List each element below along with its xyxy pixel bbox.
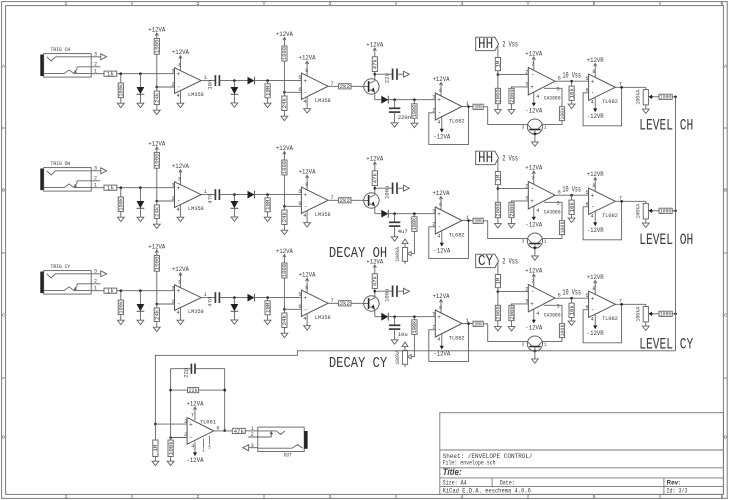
svg-text:2 Vss: 2 Vss (502, 41, 518, 50)
diode clamp D (CY) (137, 304, 145, 311)
svg-text:2: 2 (172, 299, 175, 305)
svg-text:CA3080: CA3080 (544, 312, 561, 319)
resistor 100k decay (OH) (411, 217, 418, 232)
svg-text:LM358: LM358 (315, 314, 331, 321)
op-amp U LM358 comparator A (CH) (172, 63, 207, 100)
ground Q2 emitter (CH) (532, 142, 539, 146)
resistor 1000 out (CY) (659, 311, 672, 318)
svg-text:3: 3 (432, 209, 435, 215)
svg-text:-: - (304, 306, 308, 313)
svg-text:22u: 22u (384, 73, 391, 83)
svg-text:47k: 47k (372, 275, 379, 286)
svg-text:+12VA: +12VA (299, 169, 317, 177)
wire TL081 out (214, 430, 233, 432)
wire CA3080 pin5 (OH) (544, 202, 562, 220)
svg-text:6: 6 (558, 292, 561, 298)
wire mixer 1M gnd (154, 457, 156, 462)
svg-text:4u7: 4u7 (398, 228, 408, 235)
svg-text:47k: 47k (234, 428, 245, 435)
wire divider2 to 24k (CY) (283, 309, 285, 313)
svg-text:2: 2 (172, 82, 175, 88)
svg-text:TRIG OH: TRIG OH (51, 160, 71, 167)
svg-text:100u: 100u (384, 288, 391, 301)
hierarchical label HH (OH) (476, 151, 499, 167)
op-amp U TL082 buffer (OH) (432, 202, 469, 240)
wire 24k-2 to gnd (CY) (283, 328, 285, 334)
resistor 24k divider 2 (OH) (281, 210, 288, 225)
wire cap 22p left (171, 368, 192, 370)
power -12VR TL082 output (CH) (587, 98, 604, 121)
wire diode to gnd (OH) (139, 208, 141, 217)
wire emitter to diode (CY) (375, 316, 382, 318)
capacitor 22u (CH) (384, 69, 397, 84)
capacitor 10u envelope (CY) (389, 325, 408, 338)
ground 10k load (OH) (568, 218, 575, 222)
wire CA3080 pin5 (CH) (544, 88, 562, 106)
power +12VA LM358B (OH) (299, 169, 317, 190)
frame tick right C (723, 377, 727, 379)
svg-text:+: + (437, 97, 441, 104)
op-amp U LM358 comparator A (CY) (172, 280, 207, 317)
svg-text:-12VA: -12VA (187, 457, 205, 465)
svg-text:1000: 1000 (411, 104, 418, 117)
junction bus tap (CH) (674, 96, 677, 99)
ground under 24k (OH) (153, 224, 160, 228)
svg-text:+12VA: +12VA (433, 76, 451, 84)
power +12VA pull-up 2 (CY) (276, 248, 294, 263)
svg-text:24k: 24k (154, 309, 161, 320)
svg-text:24k: 24k (154, 206, 161, 217)
svg-text:4: 4 (303, 213, 306, 219)
svg-text:1000: 1000 (154, 153, 161, 167)
wire divider to 24k (CY) (156, 304, 158, 308)
op-amp U CA3080 OTA (OH) (525, 176, 561, 216)
svg-text:+12VA: +12VA (433, 190, 451, 198)
wire pull-up2 down (CH) (283, 61, 285, 92)
frame tick bottom 4 (527, 494, 529, 498)
diode emitter series (OH) (381, 210, 388, 218)
svg-text:2: 2 (197, 494, 200, 500)
wire TL082 out feedback (CY) (583, 304, 622, 343)
ground LM358B pin4 (CH) (304, 109, 311, 113)
frame tick left A (2, 127, 6, 129)
power -12VA TL082 buffer (CH) (433, 117, 451, 141)
wire decay pot bottom stub (CY) (404, 364, 406, 367)
junction CA3080 out (OH) (570, 194, 573, 197)
wire to clamp diode 2 (OH) (233, 195, 235, 201)
wire emitter to diode (OH) (375, 213, 382, 215)
svg-text:100kA: 100kA (636, 306, 642, 322)
svg-text:4: 4 (591, 213, 594, 219)
svg-text:+: + (591, 78, 595, 85)
junction divider 2 (CY) (283, 308, 286, 311)
resistor 1M mixer input (152, 440, 159, 457)
junction TL082 output (CH) (620, 86, 623, 89)
svg-text:+12VA: +12VA (525, 267, 543, 275)
svg-text:5: 5 (586, 190, 589, 196)
svg-text:3: 3 (525, 82, 528, 88)
resistor 10k load (CH) (568, 86, 575, 100)
resistor 1k input (OH) (104, 185, 117, 192)
svg-text:4: 4 (461, 494, 464, 500)
wire divider1 to inverting input (CH) (157, 86, 175, 88)
capacitor 100u (CY) (384, 286, 397, 302)
svg-text:1M: 1M (495, 61, 502, 68)
wire to clamp diode 2 (CH) (233, 81, 235, 87)
svg-text:1: 1 (94, 286, 97, 292)
potentiometer 100kA LEVEL (CY) (636, 306, 652, 322)
svg-text:6: 6 (298, 87, 301, 93)
svg-text:LEVEL CH: LEVEL CH (639, 117, 693, 135)
svg-text:2: 2 (94, 176, 97, 182)
wire 10M to gnd (OH) (267, 212, 269, 217)
svg-text:A: A (2, 64, 5, 70)
resistor 10M (CY) (264, 301, 271, 315)
svg-text:2000: 2000 (495, 203, 502, 217)
svg-text:5: 5 (557, 87, 560, 93)
ground under 24k (CY) (153, 327, 160, 331)
wire 2000b to CA3080 pin3 (CH) (512, 87, 529, 88)
svg-text:+: + (177, 185, 181, 192)
resistor 2000 a (CY) (495, 305, 502, 320)
svg-text:3: 3 (172, 69, 175, 75)
svg-text:2000: 2000 (495, 89, 502, 103)
svg-text:6: 6 (298, 304, 301, 310)
svg-text:100kA: 100kA (636, 203, 642, 219)
wire TL082 out feedback (OH) (583, 201, 622, 240)
wire CA3080 pin5 (CY) (544, 305, 562, 323)
svg-text:100k: 100k (167, 441, 174, 456)
resistor 47k output (232, 428, 245, 435)
svg-text:100k: 100k (474, 219, 482, 225)
svg-text:+: + (177, 288, 181, 295)
svg-text:HH: HH (478, 151, 493, 167)
svg-text:5: 5 (208, 446, 211, 451)
junction 10M node (OH) (266, 193, 269, 196)
svg-text:+: + (530, 84, 534, 91)
junction 10M node (CY) (266, 296, 269, 299)
junction 10M node (CH) (266, 79, 269, 82)
junction input node (CH) (120, 72, 123, 75)
wire jack pin3 (CY) (91, 273, 103, 275)
svg-text:10k: 10k (568, 201, 575, 212)
wire LM358A gnd pin (OH) (179, 205, 181, 218)
wire decay pot top nc (OH) (404, 244, 406, 248)
wire pull-up2 down (CY) (283, 278, 285, 309)
svg-text:2000: 2000 (495, 306, 502, 320)
wire jack pin2 stub (OH) (77, 180, 101, 182)
ground under 10M (OH) (264, 217, 271, 221)
svg-text:2: 2 (172, 196, 175, 202)
resistor 1000 pull-up 2 (CH) (281, 46, 288, 61)
svg-text:LM358: LM358 (188, 205, 204, 212)
junction level wiper (CH) (650, 96, 653, 99)
potentiometer 100kA DECAY (OH) (395, 246, 411, 262)
svg-text:-12VA: -12VA (433, 248, 451, 256)
svg-text:1: 1 (544, 239, 547, 244)
wire input node (CH) (117, 73, 175, 75)
wire series diode to pin5 (CY) (255, 297, 302, 299)
wire 24k to gnd (CY) (156, 322, 158, 327)
frame tick top 3 (395, 2, 397, 6)
svg-text:LM358: LM358 (188, 91, 204, 98)
svg-text:+12VR: +12VR (587, 171, 604, 179)
frame tick left C (2, 377, 6, 379)
svg-text:100k: 100k (474, 105, 482, 111)
svg-text:TL082: TL082 (449, 117, 465, 124)
svg-text:DECAY CY: DECAY CY (329, 354, 387, 372)
svg-text:10k: 10k (568, 304, 575, 315)
power +12VA LM358A (CY) (172, 266, 190, 287)
svg-text:8: 8 (178, 280, 181, 286)
svg-text:+12VA: +12VA (433, 293, 451, 301)
junction TL082 output (OH) (620, 200, 623, 203)
svg-text:File: envelope.sch: File: envelope.sch (443, 459, 496, 466)
ground mixer 100k (167, 461, 174, 465)
svg-text:2: 2 (525, 183, 528, 189)
wire envelope cap gnd (CY) (394, 329, 396, 340)
svg-text:CA3080: CA3080 (544, 209, 561, 216)
ground Q2 emitter (OH) (532, 256, 539, 260)
wire collector node (CH) (374, 72, 376, 75)
hierarchical label CY (CY) (476, 254, 499, 270)
svg-text:Rev:: Rev: (667, 479, 681, 486)
wire out to 10k (OH) (571, 195, 573, 200)
svg-text:4: 4 (591, 99, 594, 105)
svg-text:+12VA: +12VA (525, 164, 543, 172)
junction TL082 out (CY) (467, 322, 470, 325)
wire decay res to pot wiper (OH) (410, 231, 414, 253)
wire to 10M (CY) (267, 298, 269, 301)
resistor 1M hier (OH) (495, 172, 502, 185)
resistor 1000 pull-up 1 (CY) (154, 255, 161, 271)
transistor Q2 Iabc control (OH) (527, 233, 542, 256)
power +12VA LM358B (CY) (299, 272, 317, 293)
title block line above Sheet (440, 449, 724, 451)
svg-text:-: - (591, 203, 595, 210)
svg-text:3: 3 (94, 52, 97, 58)
junction decay (CY) (413, 315, 416, 318)
wire collector to cap (CH) (375, 73, 393, 75)
ground under 24k-2 (CH) (281, 116, 288, 120)
wire collector to cap (OH) (375, 187, 393, 189)
junction divider 1 (CH) (156, 86, 159, 89)
svg-text:10M: 10M (264, 200, 271, 210)
svg-text:1000: 1000 (660, 312, 671, 318)
ground decay resistor (CH) (411, 123, 418, 127)
junction level wiper (OH) (650, 210, 653, 213)
transistor Q NPN envelope (CH) (364, 74, 379, 100)
svg-text:47k: 47k (372, 172, 379, 183)
ground 2000 b (CH) (508, 110, 515, 114)
svg-text:1: 1 (65, 1, 68, 7)
svg-text:10n: 10n (206, 80, 213, 90)
svg-text:10 Vss: 10 Vss (562, 289, 581, 298)
junction feedback right (223, 389, 226, 392)
wire TL082 feedback (CY) (429, 324, 469, 362)
svg-text:-12VR: -12VR (587, 330, 604, 338)
power +12VA CA3080 (CH) (525, 50, 543, 70)
power +12VA pull-up 1 (CY) (148, 243, 166, 255)
svg-text:4: 4 (437, 234, 440, 240)
wire 100k to gnd (OH) (120, 212, 122, 217)
wire level pot gnd (CY) (645, 322, 647, 326)
title block line below Size row (440, 486, 724, 488)
power -12VA CA3080 (CY) (525, 309, 543, 333)
svg-text:4: 4 (191, 443, 194, 449)
wire jack pin3 (OH) (91, 170, 103, 172)
svg-text:5: 5 (298, 292, 301, 298)
svg-text:2000: 2000 (508, 306, 515, 320)
wire to envelope cap (CY) (394, 317, 396, 326)
ground under 24k-2 (OH) (281, 230, 288, 234)
svg-text:C: C (2, 313, 5, 319)
resistor 1k input (CH) (104, 71, 117, 78)
resistor 100k Iabc (CY) (559, 324, 565, 338)
resistor 1000 pull-up 2 (CY) (281, 263, 288, 278)
wire jack pin3 (CH) (91, 56, 103, 58)
wire hier to 1M (CH) (497, 46, 499, 58)
junction input node (OH) (120, 186, 123, 189)
svg-text:+: + (303, 192, 307, 199)
wire LM358B gnd pin (CH) (306, 97, 308, 109)
svg-text:CA3080: CA3080 (544, 95, 561, 102)
power -12VR TL082 output (CY) (587, 315, 604, 338)
svg-text:100k: 100k (411, 320, 418, 333)
wire diode to decay node (CY) (388, 316, 435, 318)
svg-text:47k: 47k (372, 58, 379, 69)
svg-text:24k: 24k (281, 211, 288, 222)
svg-text:10k: 10k (568, 87, 575, 98)
wire LM358A out to cap (CH) (201, 80, 215, 82)
resistor 100k to Iabc (CY) (473, 321, 483, 328)
svg-text:5: 5 (586, 293, 589, 299)
wire to level pot (CH) (645, 87, 647, 89)
junction TL082 out (OH) (467, 219, 470, 222)
svg-text:+12VA: +12VA (366, 258, 384, 266)
wire 2000a gnd (CY) (497, 321, 499, 327)
resistor 10k load (CY) (568, 303, 575, 317)
frame tick right A (723, 127, 727, 129)
svg-text:1: 1 (202, 449, 205, 454)
wire 1000 to bus (OH) (672, 210, 675, 212)
wire 22k left (171, 389, 188, 391)
resistor 1000 decay (CH) (411, 104, 418, 118)
op-amp U TL082 output (CH) (586, 69, 622, 106)
wire TL082 out (OH) (462, 220, 473, 222)
TL081 offset pin 5 stub (209, 436, 211, 445)
wire pot wiper to 1000 (CH) (652, 96, 659, 98)
junction after cap (OH) (233, 193, 236, 196)
svg-text:+12VA: +12VA (148, 26, 166, 34)
junction after cap (CH) (233, 79, 236, 82)
resistor 24k divider 1 (CH) (154, 91, 161, 105)
svg-text:B: B (2, 188, 5, 194)
wire 2000b to CA3080 pin3 (OH) (512, 201, 529, 202)
op-amp U TL081 mixer (184, 412, 219, 449)
frame tick right B (723, 252, 727, 254)
wire mixer input to TL081 (155, 423, 187, 425)
ground 2000 b (CY) (508, 327, 515, 331)
svg-text:1000: 1000 (281, 160, 288, 174)
wire 2000b gnd (CY) (511, 321, 513, 327)
frame tick top 5 (659, 2, 661, 6)
ground mixer 1M (152, 461, 159, 465)
svg-text:TL082: TL082 (449, 334, 465, 341)
frame tick bottom 5 (659, 494, 661, 498)
svg-text:5: 5 (298, 189, 301, 195)
svg-text:2: 2 (197, 1, 200, 7)
junction input node (CY) (120, 289, 123, 292)
svg-text:5: 5 (593, 1, 596, 7)
svg-text:TRIG CH: TRIG CH (51, 46, 71, 53)
capacitor 47n coupling (CY) (206, 292, 219, 306)
svg-text:100kA: 100kA (636, 89, 642, 105)
resistor 1000 out (CH) (659, 94, 672, 101)
wire 10M to gnd (CH) (267, 98, 269, 103)
svg-text:OUT: OUT (284, 451, 292, 458)
svg-text:10u: 10u (398, 331, 408, 338)
wire clamp2 to gnd (CY) (233, 311, 235, 319)
ground under 24k (CH) (153, 110, 160, 114)
capacitor 22p feedback (182, 364, 195, 378)
svg-text:2000: 2000 (508, 89, 515, 103)
wire to 10M (CH) (267, 81, 269, 84)
wire base (CH) (351, 85, 364, 87)
power +12VA CA3080 (OH) (525, 164, 543, 184)
wire decay res to pot wiper (CY) (410, 334, 414, 356)
ground under 100k (CY) (117, 320, 124, 324)
svg-text:LM358: LM358 (315, 211, 331, 218)
svg-text:1: 1 (544, 342, 547, 347)
svg-text:1000: 1000 (281, 263, 288, 277)
svg-text:+12VA: +12VA (276, 248, 294, 256)
wire cap to diode node (CY) (219, 297, 247, 299)
wire 100k to gnd (CY) (120, 315, 122, 320)
wire TL082 feedback (CH) (429, 107, 469, 145)
wire divider1 to inverting input (CY) (157, 303, 175, 305)
wire divider2 to pin6 (CH) (284, 91, 301, 93)
svg-text:10M: 10M (264, 303, 271, 313)
svg-text:22k: 22k (189, 388, 198, 394)
svg-text:1000: 1000 (281, 46, 288, 60)
svg-text:2 Vss: 2 Vss (502, 155, 518, 164)
frame tick bottom 1 (131, 494, 133, 498)
ground under clamp diode (CY) (137, 320, 144, 324)
svg-text:2k2: 2k2 (340, 83, 350, 90)
svg-text:D: D (2, 435, 5, 441)
op-amp U CA3080 OTA (CY) (525, 279, 561, 319)
junction decay (CH) (413, 98, 416, 101)
wire divider2 to pin6 (OH) (284, 205, 301, 207)
ground clamp diode 2 (CH) (231, 103, 238, 107)
resistor 10M (CH) (264, 84, 271, 98)
wire CA3080 out (CH) (555, 80, 589, 82)
ground under 10M (CY) (264, 320, 271, 324)
resistor 24k divider 2 (CH) (281, 96, 288, 111)
svg-text:5: 5 (593, 494, 596, 500)
title block divider Size/Date (491, 478, 493, 487)
svg-text:-: - (177, 198, 181, 205)
svg-text:2 Vss: 2 Vss (502, 258, 518, 267)
wire 1000 to bus (CY) (672, 313, 675, 315)
transistor Q2 Iabc control (CH) (527, 119, 542, 142)
wire to envelope cap (CH) (394, 100, 396, 109)
wire diode to decay node (OH) (388, 213, 435, 215)
junction collector (CH) (374, 73, 377, 76)
wire 2000a gnd (CH) (497, 104, 499, 110)
svg-text:KiCad E.D.A. eeschema 4.0.6: KiCad E.D.A. eeschema 4.0.6 (443, 487, 532, 494)
